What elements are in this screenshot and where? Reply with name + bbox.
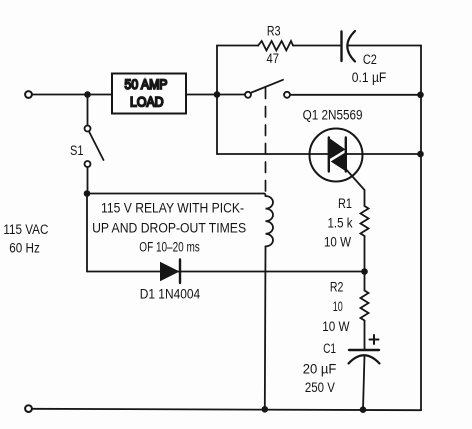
svg-text:60 Hz: 60 Hz <box>9 240 40 255</box>
svg-text:115 V RELAY WITH PICK-: 115 V RELAY WITH PICK- <box>101 201 244 216</box>
node: coil line at bottom rail <box>262 406 269 413</box>
svg-text:OF 10–20 ms: OF 10–20 ms <box>139 240 200 255</box>
wire: bottom rail <box>32 409 421 410</box>
svg-text:Q1 2N5569: Q1 2N5569 <box>303 108 363 123</box>
diode D1 1N4004 <box>160 262 180 281</box>
wire: vertical from top rail down to triac line <box>216 46 218 155</box>
capacitor C1 20uF 250V <box>349 349 379 351</box>
triac Q1 2N5569 <box>310 129 363 182</box>
resistor R3 <box>258 41 293 50</box>
wire: C1 to bottom rail <box>363 356 365 410</box>
relay contact K1 (circles and blade) <box>245 92 251 98</box>
wire: relay box left side <box>86 194 88 272</box>
wire: relay box top <box>87 193 264 195</box>
wire: coil bottom to bottom rail <box>264 246 267 409</box>
wire: triac main line right segment <box>346 153 421 155</box>
wire: C2 to right rail <box>348 45 422 47</box>
svg-text:250 V: 250 V <box>305 380 335 395</box>
svg-text:1.5 k: 1.5 k <box>328 216 353 231</box>
svg-text:R1: R1 <box>338 196 352 211</box>
svg-text:10 W: 10 W <box>324 235 351 250</box>
svg-text:10: 10 <box>333 299 343 314</box>
wire: S1 to relay box corner <box>87 167 89 194</box>
wire: right rail <box>420 46 422 411</box>
wire: gate of Q1 to R1 <box>346 169 365 206</box>
wire: top snubber rail left segment <box>217 45 258 47</box>
svg-text:R2: R2 <box>330 279 344 294</box>
terminal top-left <box>25 91 32 98</box>
svg-text:LOAD: LOAD <box>130 95 164 110</box>
wire: R3 to C2 <box>293 45 342 47</box>
svg-text:0.1 µF: 0.1 µF <box>352 70 387 85</box>
load box: 50 AMP LOAD <box>112 74 186 114</box>
svg-text:D1 1N4004: D1 1N4004 <box>140 287 201 302</box>
svg-text:47: 47 <box>267 51 280 66</box>
node: dot triac line at right rail <box>417 151 424 158</box>
node: junction main line / S1 branch <box>84 91 91 98</box>
svg-text:C1: C1 <box>323 341 336 356</box>
node: junction at x=217 <box>214 91 221 98</box>
switch S1 <box>87 95 89 126</box>
relay coil K1 <box>264 194 273 247</box>
svg-text:115 VAC: 115 VAC <box>3 222 48 237</box>
svg-text:S1: S1 <box>70 143 84 158</box>
wire: diode line (box bottom) <box>87 271 365 273</box>
svg-text:UP AND DROP-OUT TIMES: UP AND DROP-OUT TIMES <box>92 221 246 236</box>
svg-text:10 W: 10 W <box>322 319 350 334</box>
wire: triac main line left segment <box>217 153 329 155</box>
svg-text:50 AMP: 50 AMP <box>125 77 168 92</box>
svg-text:R3: R3 <box>267 24 281 39</box>
wire: top terminal to load box <box>32 94 112 96</box>
capacitor C2 <box>340 32 342 62</box>
wire: contact to right rail <box>290 94 421 96</box>
node: junction diode line / R1-R2 <box>361 268 368 275</box>
svg-text:C2: C2 <box>363 52 377 67</box>
resistor R2 10 10W <box>364 272 366 291</box>
node: relay box top-left corner <box>84 190 91 197</box>
node: C1 line at bottom rail <box>360 406 367 413</box>
resistor R1 1.5k 10W <box>361 206 369 236</box>
terminal bottom-left <box>25 405 32 412</box>
wire: load box to relay contact <box>186 94 245 96</box>
svg-text:20 µF: 20 µF <box>303 362 337 377</box>
node: dot at right rail on contact line <box>417 92 424 99</box>
dashed mechanical link relay contact to coil <box>265 88 267 193</box>
